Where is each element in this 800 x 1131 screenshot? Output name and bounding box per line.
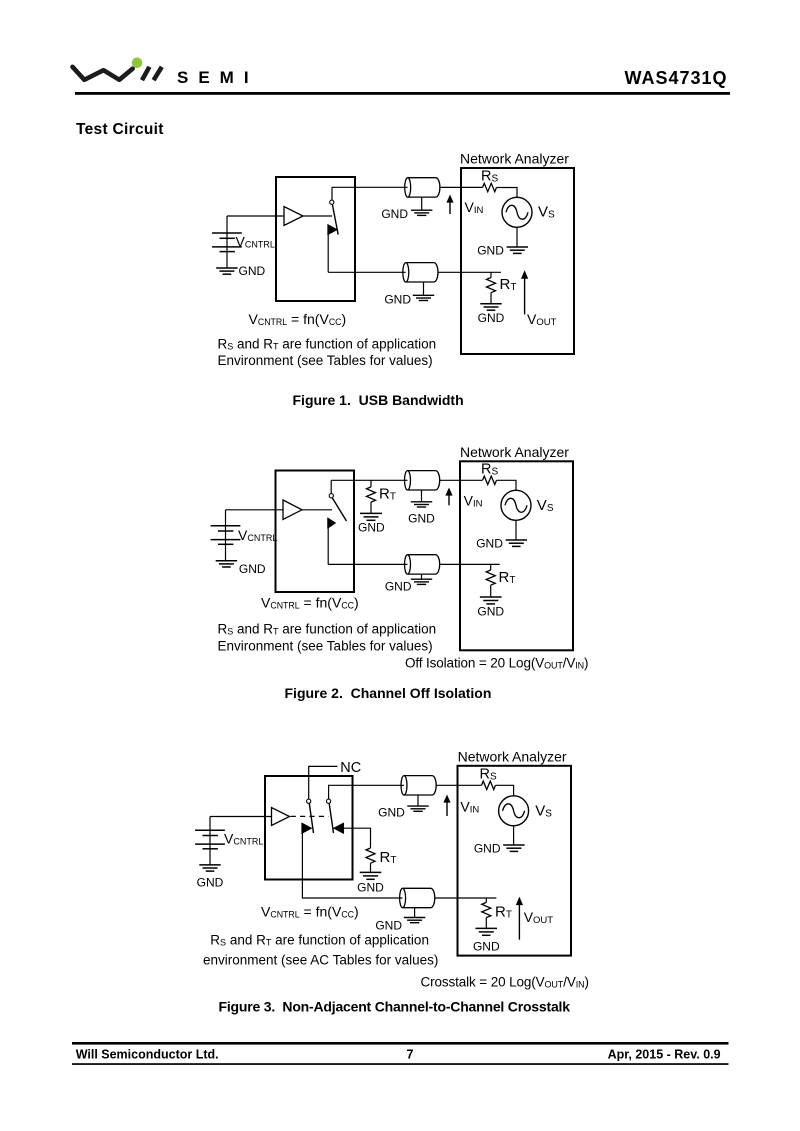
node VIN arrow fig3 <box>443 795 450 817</box>
label GND coax J2 <box>384 292 411 306</box>
svg-text:Off Isolation = 20 Log(VOUT/VI: Off Isolation = 20 Log(VOUT/VIN) <box>405 656 588 671</box>
svg-text:RS and RT are function of appl: RS and RT are function of application <box>218 336 437 351</box>
svg-text:GND: GND <box>357 881 384 895</box>
svg-text:RT: RT <box>495 904 512 921</box>
label GND RT fig1 <box>478 311 505 325</box>
label GND battery <box>239 264 266 278</box>
switch S1 top contact wire <box>331 187 333 200</box>
ground battery fig3 <box>199 865 220 871</box>
svg-text:Environment (see Tables for va: Environment (see Tables for values) <box>218 353 433 368</box>
svg-text:RS: RS <box>480 766 497 782</box>
ground battery <box>216 268 237 274</box>
wire coax J2 to RT <box>438 271 501 273</box>
ground source fig1 <box>507 227 528 253</box>
ground RT fig1 <box>480 304 501 310</box>
label VIN fig3 <box>460 799 479 816</box>
Network Analyzer box fig1 <box>461 168 574 354</box>
label VCNTRL fig2 <box>238 527 277 543</box>
resistor Rs fig3 <box>482 781 496 789</box>
logo green dot <box>132 58 143 69</box>
svg-text:VOUT: VOUT <box>524 909 554 926</box>
note line 1 fig1 <box>218 336 437 351</box>
svg-text:VOUT: VOUT <box>527 311 557 328</box>
wire bottom output to coax J2 <box>328 271 406 273</box>
footer rule bottom <box>72 1063 729 1065</box>
footer company <box>76 1048 219 1062</box>
label Vs fig1 <box>538 204 555 221</box>
svg-text:VIN: VIN <box>465 199 484 216</box>
svg-text:SEMI: SEMI <box>177 68 259 87</box>
label Vs fig2 <box>537 497 554 514</box>
footer rule top <box>72 1042 729 1045</box>
caption figure 1 <box>293 392 464 408</box>
node VIN arrow fig1 <box>446 195 453 215</box>
resistor RT fig3 <box>482 898 491 928</box>
resistor RT termination fig3 <box>366 848 375 872</box>
wire Rs to source fig2 <box>497 480 517 490</box>
caption figure 2 <box>285 685 492 701</box>
buffer amplifier fig3 <box>272 808 290 826</box>
coax J5 top fig3 <box>401 776 436 795</box>
svg-text:GND: GND <box>385 580 412 594</box>
dashed control line fig3 <box>291 815 329 817</box>
switch S2 contact circle <box>329 494 333 498</box>
label GND coax J3 <box>408 511 435 525</box>
svg-text:RS and RT are function of appl: RS and RT are function of application <box>210 932 429 947</box>
logo Will Semi wave <box>73 67 133 80</box>
coax J4 bottom fig2 <box>405 555 440 574</box>
label GND RT termination fig2 <box>358 521 385 535</box>
label GND RT fig3 <box>473 940 500 954</box>
label GND RT termination fig3 <box>357 881 384 895</box>
svg-text:Figure 2. Channel Off Isolati: Figure 2. Channel Off Isolation <box>285 685 492 701</box>
label Rs fig2 <box>481 461 498 477</box>
text off isolation formula fig2 <box>405 656 588 671</box>
switch S3a contact circle <box>307 799 311 803</box>
label VCNTRL <box>236 233 275 249</box>
svg-text:Test Circuit: Test Circuit <box>76 121 164 138</box>
svg-text:Environment (see Tables for va: Environment (see Tables for values) <box>218 639 433 654</box>
svg-text:Figure 1. USB Bandwidth: Figure 1. USB Bandwidth <box>293 392 464 408</box>
caption figure 3 <box>219 999 571 1015</box>
label Rs fig1 <box>481 169 498 185</box>
note line 2 fig1 <box>218 353 433 368</box>
svg-text:Network Analyzer: Network Analyzer <box>460 151 569 167</box>
svg-text:RT: RT <box>500 276 517 293</box>
svg-text:VCNTRL: VCNTRL <box>236 233 275 249</box>
logo SEMI text <box>177 68 259 87</box>
label RT fig3 <box>495 904 512 921</box>
wire top output to coax J1 <box>332 186 408 188</box>
label GND source fig2 <box>476 537 503 551</box>
svg-text:VCNTRL = fn(VCC): VCNTRL = fn(VCC) <box>249 311 347 327</box>
svg-text:7: 7 <box>407 1048 414 1062</box>
svg-text:GND: GND <box>381 207 408 221</box>
buffer amplifier fig2 <box>283 500 302 520</box>
ground coax J2 <box>413 282 434 301</box>
label GND source fig3 <box>474 842 501 856</box>
Network Analyzer box fig2 <box>460 461 573 650</box>
source VS fig2 <box>501 490 531 520</box>
note line 1 fig3 <box>210 932 429 947</box>
svg-text:VCNTRL = fn(VCC): VCNTRL = fn(VCC) <box>261 904 359 920</box>
label VOUT fig3 <box>524 909 554 926</box>
label GND coax J1 <box>381 207 408 221</box>
svg-text:environment (see AC Tables for: environment (see AC Tables for values) <box>203 953 438 968</box>
section heading Test Circuit <box>76 121 164 138</box>
svg-text:GND: GND <box>358 521 385 535</box>
switch S3b contact circle <box>327 799 331 803</box>
wire S3a down and to coax J6 fig3 <box>302 832 402 899</box>
svg-text:RT: RT <box>380 849 397 866</box>
svg-text:Network Analyzer: Network Analyzer <box>458 749 567 765</box>
coax J6 bottom fig3 <box>400 888 435 907</box>
coax J1 top <box>405 178 440 197</box>
battery B1 VCNTRL <box>212 216 242 268</box>
switch S2 blade open <box>332 498 346 521</box>
svg-text:RT: RT <box>499 569 516 586</box>
note line 2 fig3 <box>203 953 438 968</box>
wire switch arrow down <box>327 233 329 272</box>
coax J2 bottom <box>403 263 438 282</box>
label Vs fig3 <box>535 803 552 820</box>
svg-text:Crosstalk = 20 Log(VOUT/VIN): Crosstalk = 20 Log(VOUT/VIN) <box>421 975 589 990</box>
text crosstalk formula fig3 <box>421 975 589 990</box>
source VS fig1 <box>502 197 532 227</box>
svg-text:VCNTRL = fn(VCC): VCNTRL = fn(VCC) <box>261 595 359 611</box>
svg-text:Apr, 2015 - Rev. 0.9: Apr, 2015 - Rev. 0.9 <box>608 1048 721 1062</box>
svg-text:GND: GND <box>478 311 505 325</box>
wire bottom output to coax fig2 <box>328 563 407 565</box>
note line 2 fig2 <box>218 639 433 654</box>
label RT fig2 <box>499 569 516 586</box>
logo slash 1 <box>142 67 149 80</box>
label VCNTRL fig3 <box>224 831 263 847</box>
switch S3b arrow contact <box>333 823 344 834</box>
wire Rs to source fig3 <box>496 785 514 796</box>
svg-text:GND: GND <box>197 876 224 890</box>
ground source fig2 <box>506 520 527 546</box>
ground coax J6 <box>404 908 425 923</box>
wire switch arrow down fig2 <box>327 527 329 565</box>
text VCNTRL = fn(VCC) fig3 <box>261 904 359 920</box>
svg-text:VIN: VIN <box>464 493 483 510</box>
switch S3b top wire <box>329 785 404 799</box>
NC wire fig3 <box>309 766 338 799</box>
switch S1 contact circle <box>330 200 334 204</box>
svg-text:VS: VS <box>537 497 554 514</box>
wire coax J6 into box fig3 <box>435 897 497 899</box>
svg-text:RS and RT are function of appl: RS and RT are function of application <box>218 622 437 637</box>
label GND source fig1 <box>477 244 504 258</box>
node VOUT arrow fig1 <box>521 270 528 314</box>
svg-text:VS: VS <box>535 803 552 820</box>
svg-text:VIN: VIN <box>460 799 479 816</box>
switch S1 arrow contact <box>328 224 338 235</box>
resistor RT fig1 <box>487 272 496 303</box>
ground RT fig3 <box>476 928 498 935</box>
svg-text:RS: RS <box>481 169 498 185</box>
source VS fig3 <box>499 796 529 826</box>
DUT box <box>276 177 355 301</box>
label VIN fig1 <box>465 199 484 216</box>
label VIN fig2 <box>464 493 483 510</box>
text VCNTRL = fn(VCC) fig2 <box>261 595 359 611</box>
svg-text:Network Analyzer: Network Analyzer <box>460 444 569 460</box>
switch S3b blade <box>329 803 333 833</box>
ground battery fig2 <box>216 561 237 567</box>
label GND battery fig3 <box>197 876 224 890</box>
wire coax J4 into box fig2 <box>440 563 500 565</box>
ground RT termination fig3 <box>360 872 382 879</box>
switch S2 top contact wire <box>330 480 332 493</box>
resistor Rs fig1 <box>483 183 497 191</box>
Network Analyzer box fig3 <box>458 766 572 956</box>
svg-text:NC: NC <box>340 760 361 776</box>
node VIN arrow fig2 <box>445 488 452 506</box>
wire battery to buffer input fig2 <box>226 509 284 511</box>
node VOUT arrow fig3 <box>516 897 523 940</box>
label GND battery fig2 <box>239 562 266 576</box>
svg-text:GND: GND <box>375 918 402 932</box>
coax J3 top fig2 <box>405 471 440 490</box>
logo slash 2 <box>154 67 162 80</box>
wire buffer output <box>303 215 332 217</box>
ground source fig3 <box>503 826 524 852</box>
wire coax J5 to Rs fig3 <box>436 784 481 786</box>
DUT box fig2 <box>276 471 355 593</box>
svg-text:RT: RT <box>379 486 396 503</box>
switch S2 arrow contact <box>328 518 336 529</box>
svg-text:VCNTRL: VCNTRL <box>224 831 263 847</box>
ground coax J3 <box>411 490 432 507</box>
svg-text:GND: GND <box>239 562 266 576</box>
wire Rs to source <box>497 188 518 198</box>
svg-text:WAS4731Q: WAS4731Q <box>624 68 727 88</box>
svg-text:Will Semiconductor Ltd.: Will Semiconductor Ltd. <box>76 1048 219 1062</box>
wire buffer output fig2 <box>302 509 332 511</box>
resistor RT termination fig2 <box>367 480 376 513</box>
ground RT fig2 <box>480 597 502 604</box>
svg-text:GND: GND <box>473 940 500 954</box>
svg-text:GND: GND <box>477 244 504 258</box>
label GND coax J5 <box>378 805 405 819</box>
svg-text:GND: GND <box>239 264 266 278</box>
label Network Analyzer fig3 <box>458 749 567 765</box>
resistor Rs fig2 <box>483 476 497 484</box>
svg-text:Figure 3. Non-Adjacent Channe: Figure 3. Non-Adjacent Channel-to-Channe… <box>219 999 571 1015</box>
label GND coax J4 <box>385 580 412 594</box>
label GND RT fig2 <box>477 605 504 619</box>
text VCNTRL = fn(VCC) fig1 <box>249 311 347 327</box>
svg-text:RS: RS <box>481 461 498 477</box>
header rule <box>75 92 730 95</box>
label Network Analyzer fig1 <box>460 151 569 167</box>
battery B3 VCNTRL <box>195 817 225 865</box>
svg-text:GND: GND <box>474 842 501 856</box>
svg-text:GND: GND <box>378 805 405 819</box>
footer page number <box>407 1048 414 1062</box>
resistor RT fig2 <box>486 564 495 596</box>
wire coax J3 to Rs fig2 <box>440 479 483 481</box>
label Rs fig3 <box>480 766 497 782</box>
buffer amplifier <box>284 207 303 226</box>
svg-text:VCNTRL: VCNTRL <box>238 527 277 543</box>
header part number WAS4731Q <box>624 68 727 88</box>
label RT termination fig2 <box>379 486 396 503</box>
label Network Analyzer fig2 <box>460 444 569 460</box>
label GND coax J6 <box>375 918 402 932</box>
svg-text:GND: GND <box>476 537 503 551</box>
wire coax J1 to Rs <box>440 186 483 188</box>
label VOUT fig1 <box>527 311 557 328</box>
ground coax J1 <box>411 197 432 215</box>
label RT termination fig3 <box>380 849 397 866</box>
footer date rev <box>608 1048 721 1062</box>
switch S3a blade <box>309 803 313 833</box>
wire S3b arrow to RT fig3 <box>344 828 371 848</box>
switch S3a arrow contact <box>302 823 312 834</box>
svg-text:GND: GND <box>408 511 435 525</box>
label NC fig3 <box>340 760 361 776</box>
label RT fig1 <box>500 276 517 293</box>
ground coax J5 <box>407 795 428 811</box>
note line 1 fig2 <box>218 622 437 637</box>
svg-text:VS: VS <box>538 204 555 221</box>
DUT box fig3 <box>265 776 353 880</box>
wire battery to buffer input fig3 <box>210 816 272 818</box>
switch S1 blade <box>332 205 338 235</box>
wire battery to buffer input <box>227 215 284 217</box>
wire top output to coax fig2 <box>331 479 407 481</box>
ground coax J4 <box>411 574 432 584</box>
svg-text:GND: GND <box>384 292 411 306</box>
battery B2 VCNTRL <box>211 510 241 561</box>
svg-text:GND: GND <box>477 605 504 619</box>
ground RT termination fig2 <box>360 513 382 520</box>
